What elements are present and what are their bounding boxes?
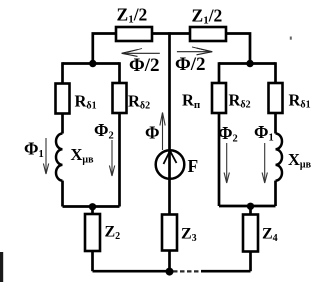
- inductor X-mu-b right (3 arcs bulging right): [276, 134, 283, 181]
- node left rejoin dot: [89, 203, 96, 210]
- source F (circle with up arrow): [156, 150, 199, 179]
- wire right outer branch down: [274, 62, 277, 83]
- wire top-right horizontal and drop from Z1/2 right terminal: [226, 34, 250, 64]
- wire right rejoin horizontal: [219, 205, 276, 208]
- node bottom center dot: [166, 268, 174, 276]
- wire left outer below box to inductor: [61, 114, 64, 134]
- wire left rejoin horizontal: [63, 205, 120, 208]
- wire Z3 bottom to rail: [168, 251, 171, 272]
- flux arrow PHI center (up): [145, 113, 165, 151]
- wire bottom rail: [93, 270, 172, 273]
- wire right inner branch down: [218, 62, 221, 83]
- wire right outer below box to inductor: [274, 113, 277, 134]
- wire bottom rail right solid segment: [201, 270, 251, 273]
- wire left inner branch down to R-delta2: [118, 62, 121, 83]
- flux arrow PHI/2 right (pointing right): [175, 47, 212, 75]
- resistor Z4: [243, 215, 278, 252]
- wire bottom rail dashed faint segment: [173, 270, 203, 272]
- wire left outer below inductor to rejoin: [61, 181, 64, 207]
- resistor Z1/2 left: [116, 5, 152, 42]
- resistor R-delta2 left: [113, 83, 151, 113]
- flux arrow PHI1 left (down): [24, 138, 49, 174]
- svg-text:F: F: [188, 156, 199, 176]
- wire right outer below inductor to rejoin: [274, 181, 277, 206]
- node left junction dot: [89, 60, 96, 67]
- flux arrow PHI/2 left (pointing left): [122, 49, 160, 77]
- wire down to Z4: [249, 206, 252, 215]
- wire right branch split horizontal: [219, 62, 276, 65]
- flux arrow PHI2 left (down): [94, 120, 115, 176]
- inductor X-mu-b left (3 arcs bulging left): [56, 134, 63, 181]
- wire left outer branch down to R-delta1: [61, 62, 64, 83]
- flux arrow PHI1 right (down): [254, 122, 274, 183]
- wire down to Z2: [91, 207, 94, 215]
- svg-text:Φ/2: Φ/2: [129, 55, 160, 76]
- flux arrow PHI2 right (down): [218, 123, 238, 183]
- resistor Z2: [85, 214, 120, 251]
- resistor R-delta1 right: [269, 83, 311, 113]
- wire left branch split horizontal: [63, 62, 120, 65]
- scan artifact left edge bar: [0, 252, 3, 282]
- wire right inner down to rejoin: [218, 113, 221, 206]
- node right rejoin dot: [247, 203, 254, 210]
- node right junction dot: [246, 60, 253, 67]
- wire left inner down to rejoin: [118, 113, 121, 207]
- svg-text:Φ: Φ: [145, 123, 160, 143]
- scan artifact tiny mark top right: [290, 37, 292, 40]
- svg-text:Φ/2: Φ/2: [175, 54, 206, 75]
- resistor R-delta1 left: [56, 84, 97, 114]
- wire top-center connecting both Z1/2 resistors to center trunk: [152, 32, 190, 35]
- wire center trunk: [168, 32, 171, 214]
- resistor Z1/2 right: [190, 6, 226, 42]
- wire Z2 bottom to rail: [91, 251, 94, 271]
- resistor R-delta2 right: [212, 83, 251, 113]
- wire Z4 bottom to rail: [249, 252, 252, 272]
- wire top-left horizontal and drop from Z1/2 left terminal: [93, 34, 116, 64]
- resistor Z3: [162, 215, 197, 251]
